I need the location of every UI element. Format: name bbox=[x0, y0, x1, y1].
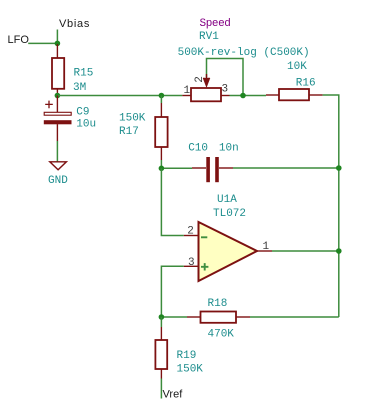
svg-text:470K: 470K bbox=[208, 329, 235, 341]
capacitor C9 bbox=[44, 96, 96, 142]
svg-text:10n: 10n bbox=[219, 142, 239, 154]
power label Vbias bbox=[57, 18, 90, 46]
pot body bbox=[191, 88, 221, 101]
junction R18/R19/pin3 node bbox=[159, 314, 165, 320]
svg-text:10u: 10u bbox=[76, 118, 96, 130]
svg-text:C9: C9 bbox=[76, 107, 89, 119]
pin 3 bbox=[221, 95, 230, 97]
svg-text:R18: R18 bbox=[208, 298, 228, 310]
pin 2 bbox=[184, 235, 199, 237]
svg-text:TL072: TL072 bbox=[213, 208, 246, 220]
junction output/right column bbox=[336, 248, 342, 254]
pin 3 bbox=[184, 265, 199, 267]
junction wiper/pin3 node bbox=[240, 93, 246, 99]
wire C10 row left bbox=[161, 167, 192, 169]
wire output to right column bbox=[272, 250, 339, 252]
svg-text:3: 3 bbox=[222, 84, 229, 96]
svg-text:500K-rev-log (C500K): 500K-rev-log (C500K) bbox=[178, 47, 310, 59]
svg-text:150K: 150K bbox=[177, 364, 204, 376]
svg-text:3M: 3M bbox=[73, 82, 86, 94]
junction R15 bottom node bbox=[55, 93, 61, 99]
label LFO bbox=[8, 34, 58, 46]
svg-text:Speed: Speed bbox=[200, 18, 231, 30]
capacitor C10 bbox=[188, 142, 239, 182]
wire wiper loop bbox=[207, 59, 244, 96]
svg-text:2: 2 bbox=[187, 226, 194, 238]
junction R17 top node bbox=[159, 93, 165, 99]
svg-text:10K: 10K bbox=[287, 61, 307, 73]
svg-text:1: 1 bbox=[263, 241, 270, 253]
svg-text:C10: C10 bbox=[188, 142, 208, 154]
pin 1 bbox=[182, 95, 191, 97]
svg-text:U1A: U1A bbox=[217, 194, 237, 206]
svg-text:2: 2 bbox=[194, 76, 206, 83]
svg-text:Vbias: Vbias bbox=[59, 18, 90, 30]
pin 2 wiper arrow bbox=[206, 74, 208, 79]
svg-text:R16: R16 bbox=[296, 77, 316, 89]
svg-text:R15: R15 bbox=[74, 68, 94, 80]
wire R18 row bbox=[161, 316, 187, 318]
svg-text:Vref: Vref bbox=[163, 388, 184, 400]
resistor R17 bbox=[119, 96, 168, 169]
svg-text:R17: R17 bbox=[119, 126, 139, 138]
minus symbol bbox=[201, 236, 207, 238]
junction LFO/Vbias node bbox=[55, 41, 61, 47]
svg-text:R19: R19 bbox=[177, 350, 197, 362]
resistor R15 bbox=[52, 44, 93, 96]
junction R17 bottom node bbox=[159, 166, 165, 172]
op-amp U1A bbox=[184, 194, 272, 281]
wire R19 to Vref bbox=[160, 379, 162, 399]
potentiometer RV1 bbox=[178, 18, 310, 102]
svg-text:LFO: LFO bbox=[8, 34, 30, 46]
svg-text:RV1: RV1 bbox=[199, 31, 219, 43]
wire C10 to right column bbox=[233, 167, 339, 169]
wire pot pin3 to R16 bbox=[230, 95, 267, 97]
resistor R16 bbox=[266, 61, 323, 100]
svg-text:1: 1 bbox=[184, 85, 191, 97]
wire top bus bbox=[57, 95, 182, 97]
svg-text:150K: 150K bbox=[119, 112, 146, 124]
pin 1 output bbox=[257, 250, 272, 252]
ground GND bbox=[48, 162, 68, 187]
plus symbol bbox=[201, 263, 208, 270]
wire to op-amp pin 3 bbox=[161, 266, 183, 317]
wire to op-amp pin 2 bbox=[161, 168, 183, 235]
wire C9 to GND bbox=[56, 141, 58, 162]
svg-text:GND: GND bbox=[48, 175, 68, 187]
resistor R19 bbox=[155, 317, 203, 379]
svg-text:3: 3 bbox=[188, 257, 195, 269]
wire R18 to right column bbox=[250, 316, 339, 318]
wire right column bbox=[323, 95, 339, 317]
resistor R18 bbox=[187, 298, 250, 341]
junction C10/right column bbox=[336, 165, 342, 171]
